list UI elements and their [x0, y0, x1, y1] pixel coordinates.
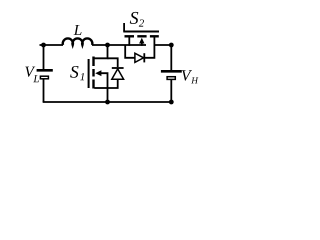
- battery VH short plate: [167, 77, 175, 80]
- diode D2 left drop: [125, 45, 135, 58]
- wire S2 body stem: [141, 43, 143, 46]
- diode D2 cathode wire and riser: [144, 45, 154, 58]
- wire S2 drain lead (right): [153, 37, 155, 45]
- wire S1 source to bottom rail: [107, 88, 109, 102]
- diode D1 top stub: [108, 58, 118, 67]
- label S2 letter S: [130, 12, 139, 24]
- node dot bottom-right (VH-): [169, 100, 174, 105]
- wire S1 source lead: [94, 87, 107, 89]
- wire S2 source lead (left): [128, 37, 130, 46]
- wire S1 drain lead: [94, 45, 107, 58]
- wire top rail right: [154, 44, 171, 46]
- diode D1 cathode bar: [112, 67, 124, 69]
- node dot top-right (VH+): [169, 43, 174, 48]
- label L: [74, 25, 82, 35]
- transistor S1 channel bar bottom: [92, 80, 94, 89]
- wire top rail left: [40, 44, 64, 46]
- transistor S2 gate bar: [123, 31, 159, 33]
- wire VH- vertical: [170, 80, 172, 102]
- node dot bottom (S1 source / rail): [105, 100, 110, 105]
- transistor S1 channel bar middle: [92, 69, 94, 77]
- transistor S1 body arrow: [95, 70, 101, 76]
- inductor L: [63, 38, 93, 45]
- transistor S2 channel bar left: [125, 35, 135, 37]
- transistor S2 body arrow: [139, 38, 144, 44]
- wire S1 body stem: [101, 73, 108, 88]
- transistor S2 channel bar middle: [137, 35, 146, 37]
- transistor S1 channel bar top: [92, 57, 94, 67]
- label VL letter V: [25, 67, 35, 77]
- transistor S1 gate bar: [88, 59, 90, 88]
- transistor S2 channel bar right: [150, 35, 159, 37]
- wire bottom rail: [43, 101, 172, 103]
- label VH subscript H: [191, 77, 198, 83]
- diode D1 bottom stub: [108, 79, 118, 88]
- wire VL- vertical: [43, 79, 45, 102]
- wire rail inductor to node A: [92, 44, 146, 46]
- battery VL long plate: [37, 69, 53, 72]
- label S1 subscript 1: [80, 73, 84, 80]
- wire VL+ vertical: [43, 45, 45, 69]
- label VL subscript L: [33, 75, 39, 82]
- label S2 subscript 2: [139, 19, 144, 26]
- transistor S2 gate lead: [123, 23, 125, 32]
- battery VH long plate: [161, 70, 182, 73]
- node A dot (L / S1 drain / rail): [105, 43, 110, 48]
- label VH letter V: [182, 70, 192, 80]
- diode D2 cathode bar: [143, 53, 145, 62]
- label S1 letter S: [70, 66, 78, 78]
- node dot top-left (VL+): [41, 43, 46, 48]
- diode D1 triangle: [112, 69, 124, 79]
- wire VH+ vertical: [170, 45, 172, 70]
- diode D2 triangle: [135, 53, 144, 62]
- battery VL short plate: [40, 76, 48, 79]
